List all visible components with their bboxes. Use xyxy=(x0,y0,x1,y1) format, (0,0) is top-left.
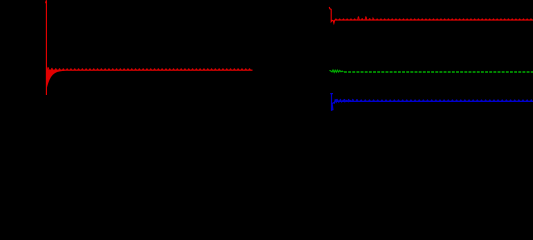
green trace: dashed settled line xyxy=(344,71,533,73)
blue trace: settled line xyxy=(335,100,533,102)
right red trace: ripple teeth xyxy=(335,17,533,20)
green trace: transient zigzag xyxy=(329,70,343,72)
left red trace: settled line xyxy=(47,69,253,71)
left red trace: ringing wedge fill xyxy=(46,70,64,88)
blue trace: ripple teeth xyxy=(335,99,533,101)
left red trace: impulse spike xyxy=(45,1,48,95)
right red trace: transient xyxy=(329,7,335,23)
right red trace: settled line xyxy=(335,19,533,21)
left red trace: ripple teeth xyxy=(47,68,252,71)
blue trace: transient xyxy=(330,94,352,111)
